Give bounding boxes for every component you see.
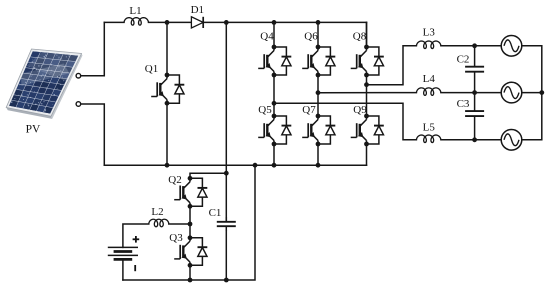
wire D1 to bridge [203, 21, 366, 23]
svg-text:L5: L5 [423, 121, 436, 133]
wire phase to Q5 [273, 103, 275, 116]
svg-text:Q4: Q4 [260, 31, 274, 43]
wire Q5 emitter [273, 144, 275, 165]
wire Q8 collector [366, 22, 368, 47]
inductor L5 [416, 135, 441, 143]
wire top rail to Q8 [366, 22, 368, 47]
wire right bus lower [522, 93, 542, 140]
inductor L1 [124, 18, 149, 26]
battery [108, 247, 138, 259]
wire PV- to bottom rail [81, 104, 105, 165]
wire Q8 to phase C node [366, 75, 368, 85]
wire PV+ to top rail [81, 22, 105, 75]
PV negative terminal [76, 102, 81, 107]
wire phase C to L3 [367, 46, 417, 85]
wire phase to Q9 [366, 85, 368, 116]
wire top rail left segment [104, 21, 124, 23]
wire L1 to D1 [149, 21, 192, 23]
junction boost node [165, 20, 170, 25]
inductor L2 [149, 219, 169, 227]
capacitor C1 [217, 217, 236, 231]
svg-text:L2: L2 [151, 206, 163, 218]
wire Q9 emitter to rail corner [274, 144, 367, 165]
svg-text:Q5: Q5 [258, 104, 272, 116]
wire Q3 emitter [189, 265, 191, 280]
wire Q7 emitter [317, 144, 319, 165]
transistor Q9 [351, 114, 384, 147]
wire source 1 to right bus [522, 46, 542, 93]
svg-text:L4: L4 [423, 73, 436, 85]
label battery minus [134, 265, 136, 271]
svg-text:D1: D1 [191, 4, 204, 16]
wire battery top to L2 [123, 224, 149, 247]
transistor Q6 [302, 45, 335, 78]
transistor Q1 [151, 73, 184, 106]
junction DC+ at C1 [224, 20, 229, 25]
svg-text:C3: C3 [457, 98, 470, 110]
wire Q1 collector [166, 22, 168, 75]
junction rail at Q1 [165, 163, 170, 168]
svg-text:Q9: Q9 [353, 104, 367, 116]
wire phase B to L4 [318, 92, 416, 94]
svg-text:C1: C1 [209, 207, 222, 219]
svg-text:L3: L3 [423, 27, 436, 39]
wire L2 to midpoint [169, 223, 190, 225]
AC source phase 1 [501, 36, 522, 57]
transistor Q2 [174, 176, 207, 209]
transistor Q8 [351, 45, 384, 78]
junction C2 top [472, 43, 477, 48]
PV solar panel [6, 49, 82, 119]
wire L4 to source 2 [441, 92, 502, 94]
junction C1 at lowest rail [224, 278, 229, 283]
transistor Q3 [174, 235, 207, 267]
wire bottom rail [104, 164, 366, 166]
wire Q4 to phase A node [273, 75, 275, 103]
AC source phase 3 [501, 130, 522, 151]
wire source 2 to right bus [522, 92, 542, 94]
junction C3 bottom [472, 137, 477, 142]
node phase B [316, 90, 321, 95]
wire DC+ down to C1 [225, 22, 227, 221]
node phase C [364, 82, 369, 87]
capacitor C3 [465, 93, 484, 140]
svg-text:PV: PV [26, 123, 41, 135]
svg-text:Q2: Q2 [168, 174, 181, 186]
wire battery bottom [122, 259, 124, 280]
diode D1 [191, 17, 203, 28]
wire C1 to lowest rail [225, 231, 227, 280]
junction rail at Q5 [272, 163, 277, 168]
junction Q3 at lowest rail [188, 278, 193, 283]
svg-text:C2: C2 [457, 53, 470, 65]
junction rail at down-link [253, 163, 258, 168]
inductor L4 [416, 88, 441, 96]
junction Q2 collector tee [224, 171, 229, 176]
svg-text:Q8: Q8 [353, 31, 367, 43]
transistor Q5 [258, 114, 291, 147]
junction rail at Q7 [316, 163, 321, 168]
wire Q6 to phase B node [317, 75, 319, 93]
label battery plus [133, 236, 140, 243]
wire L3 to source 1 [441, 45, 502, 47]
AC source phase 2 [501, 82, 522, 103]
wire link BOT to LOW [123, 165, 255, 280]
svg-text:Q1: Q1 [145, 63, 158, 75]
svg-text:Q7: Q7 [302, 104, 316, 116]
capacitor C2 [465, 46, 484, 93]
wire Q6 collector [317, 22, 319, 47]
junction DC+ at Q4 [272, 20, 277, 25]
wire Q2 collector [190, 173, 226, 178]
node phase A [272, 101, 277, 106]
junction right bus [539, 90, 544, 95]
PV positive terminal [76, 73, 81, 78]
junction C2 bottom C3 top [472, 90, 477, 95]
transistor Q7 [302, 114, 335, 147]
inductor L3 [416, 41, 441, 49]
svg-text:Q6: Q6 [304, 31, 318, 43]
wire midpoint to Q3 [189, 224, 191, 238]
transistor Q4 [258, 45, 291, 78]
wire Q4 collector [273, 22, 275, 47]
wire phase A to L5 [274, 103, 416, 140]
wire L5 to source 3 [441, 139, 502, 141]
node battery midpoint [188, 222, 193, 227]
wire Q1 emitter [166, 103, 168, 165]
junction DC+ at Q6 [316, 20, 321, 25]
wire Q2 emitter to midpoint [189, 206, 191, 224]
wire phase to Q7 [317, 93, 319, 116]
svg-text:L1: L1 [129, 5, 141, 17]
svg-text:Q3: Q3 [169, 232, 183, 244]
